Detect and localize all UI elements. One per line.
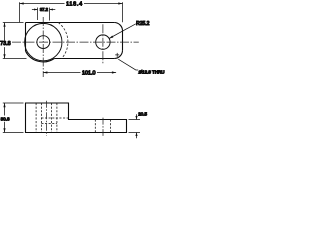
right hole circle	[96, 35, 110, 49]
front view hidden line counterbore bottom	[41, 123, 57, 125]
horizontal centerline	[12, 41, 139, 43]
front view hidden line hole left	[40, 103, 42, 133]
boss circle around left hole	[25, 23, 62, 60]
leader diameter 12.8 THRU line	[118, 59, 138, 70]
dimension 30.8 extension lines	[3, 103, 24, 133]
front view hidden line right hole left	[94, 120, 96, 133]
plate outline top-right corner arc	[114, 23, 122, 31]
dimension 37.2 extension lines	[38, 8, 50, 21]
dimension 73.8 line	[3, 23, 27, 59]
svg-text:Ø12.8 THRU: Ø12.8 THRU	[139, 70, 165, 75]
leader diameter 12.8 THRU anchor cross	[115, 53, 138, 70]
plate outline right edge	[122, 31, 124, 50]
plate outline top edge	[26, 22, 115, 24]
svg-text:20.5: 20.5	[138, 112, 147, 117]
front view centerline left hole	[45, 101, 47, 136]
svg-text:37.2: 37.2	[40, 7, 49, 12]
front view hidden line right hole right	[110, 120, 112, 133]
dimension 30.8 line	[3, 103, 24, 133]
front view hidden line plate top behind boss	[41, 117, 68, 119]
hidden arc boss diameter right side	[58, 23, 68, 59]
dimension 118.4 line	[20, 2, 123, 22]
front view hidden line counterbore left	[35, 103, 37, 133]
vertical centerline left hole	[42, 17, 44, 77]
svg-text:R25.2: R25.2	[136, 21, 150, 27]
dimension 101.0 line	[43, 71, 116, 73]
plate outline bottom-left large arc	[26, 51, 55, 62]
front view hidden line counterbore right	[56, 103, 58, 133]
front view outline	[26, 103, 127, 133]
dimension 73.8 extension lines	[3, 23, 27, 59]
svg-text:73.8: 73.8	[0, 41, 11, 47]
dimension 20.5 line	[129, 114, 141, 138]
plate outline left edge	[25, 23, 27, 52]
front view hidden line hole right	[51, 103, 53, 133]
vertical centerline right hole	[102, 24, 104, 63]
plate outline bottom-right corner arc	[114, 50, 122, 58]
svg-text:101.0: 101.0	[82, 71, 96, 77]
leader R25.2 arrow at right hole	[109, 24, 136, 39]
left hole circle	[37, 36, 50, 49]
dimension 20.5 extension lines	[129, 120, 141, 133]
dimension 37.2 arrows	[32, 8, 55, 21]
svg-text:118.4: 118.4	[66, 1, 83, 7]
svg-text:30.8: 30.8	[1, 116, 10, 121]
plate outline bottom edge	[54, 58, 114, 60]
front view centerline right hole	[102, 118, 104, 136]
dimension 118.4 extension lines	[20, 2, 123, 22]
